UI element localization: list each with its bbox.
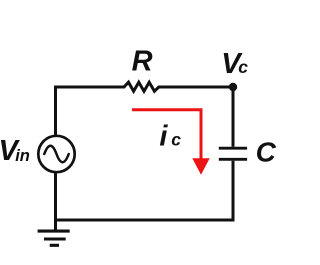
svg-text:R: R [132, 45, 153, 77]
svg-text:i: i [159, 121, 168, 153]
svg-text:c: c [171, 129, 181, 149]
svg-text:c: c [238, 57, 248, 77]
svg-text:in: in [15, 147, 30, 165]
svg-text:C: C [256, 137, 277, 168]
